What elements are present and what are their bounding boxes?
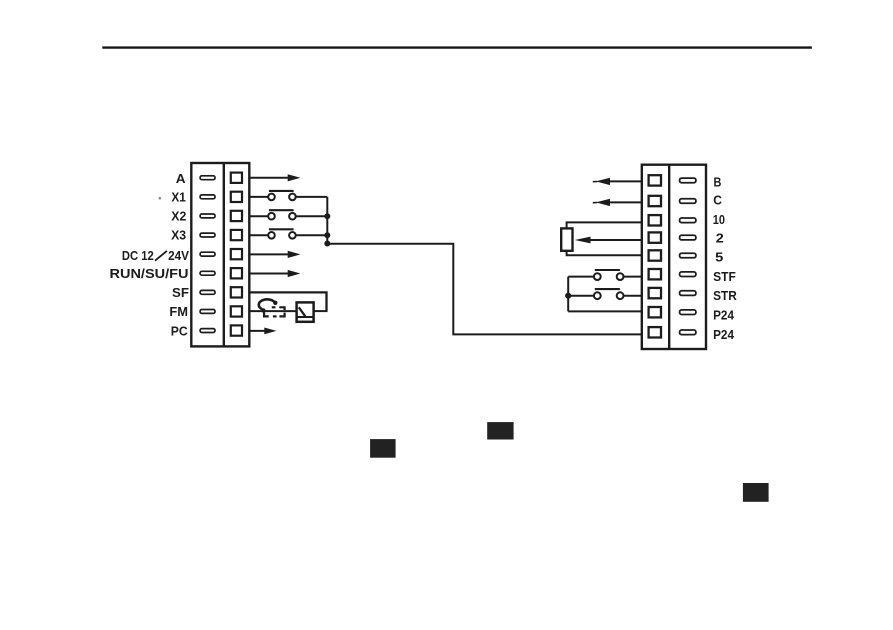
wire A output (249, 177, 289, 179)
bus X1-X3 vertical (326, 197, 328, 244)
terminal B (right) (649, 175, 696, 185)
right terminal block outline (642, 165, 706, 349)
svg-text:SF: SF (172, 285, 189, 300)
svg-text:A: A (176, 171, 186, 186)
wire X3 to switch (249, 234, 268, 236)
terminal P24b (right) (649, 327, 696, 337)
scan speck (159, 197, 162, 200)
arrowhead C (596, 199, 610, 206)
svg-text:PC: PC (171, 323, 188, 338)
wire X1 switch to bus (296, 196, 328, 198)
terminal FM (left) (200, 306, 242, 316)
bus STF/STR vertical (567, 277, 569, 312)
wire 10 to potentiometer top (567, 222, 642, 228)
wire bus to P24 (568, 310, 642, 312)
junction dot X2 (324, 213, 330, 219)
svg-text:X2: X2 (171, 209, 186, 224)
wire X3 switch to bus (296, 234, 328, 236)
meter M (frequency meter) (259, 299, 285, 316)
svg-text:X1: X1 (171, 190, 186, 205)
terminal X3 (left) (200, 230, 242, 240)
terminal STF (right) (649, 269, 696, 279)
switch STR (594, 289, 624, 299)
switch X1 (268, 191, 296, 200)
wire box to SF rail (314, 310, 328, 312)
wire DC12/24V output (249, 253, 289, 255)
terminal C (right) (649, 196, 696, 206)
wire X2 to switch (249, 215, 268, 217)
wire RUN/SU/FU output (249, 273, 289, 275)
svg-text:24V: 24V (168, 248, 189, 263)
arrowhead PC (264, 328, 276, 335)
arrowhead wiper (575, 237, 591, 244)
long wire X3-bus to P24 (327, 244, 642, 335)
calibration resistor box (297, 302, 314, 321)
svg-text:5: 5 (715, 250, 723, 265)
terminal RUN/SU/FU (left) (200, 268, 242, 278)
arrow C tip whisker (593, 202, 598, 204)
left terminal block outline (191, 163, 249, 346)
svg-text:P24: P24 (713, 327, 734, 342)
terminal 5 (right) (649, 250, 696, 260)
switch STF (594, 270, 624, 280)
redaction box 2 (487, 422, 513, 439)
wire STR switch to bus (568, 295, 594, 297)
terminal 2 (right) (649, 232, 696, 242)
svg-text:STR: STR (713, 288, 737, 303)
wire X2 switch to bus (296, 215, 328, 217)
wire C output (609, 201, 642, 203)
svg-text:10: 10 (713, 212, 725, 227)
svg-text:X3: X3 (171, 227, 186, 242)
switch X3 (268, 229, 296, 238)
wire STR switch to block (624, 295, 642, 297)
terminal X1 (left) (200, 192, 242, 202)
switch X2 (268, 210, 296, 219)
terminal STR (right) (649, 288, 696, 298)
arrowhead B (596, 178, 610, 185)
svg-text:RUN/SU/FU: RUN/SU/FU (110, 266, 189, 281)
svg-text:DC 12: DC 12 (122, 248, 154, 263)
terminal SF (left) (200, 287, 242, 297)
redaction box 3 (743, 483, 769, 502)
wire STF switch to block (624, 276, 642, 278)
potentiometer body (561, 228, 572, 250)
wire SF rail (249, 292, 326, 311)
svg-text:B: B (714, 174, 722, 189)
wire 2 wiper (590, 239, 642, 241)
junction dot X3 (324, 232, 330, 238)
svg-text:C: C (713, 193, 722, 208)
arrowhead DC12/24V (288, 251, 301, 258)
terminal 10 (right) (649, 215, 696, 225)
terminal PC (left) (200, 325, 242, 335)
svg-text:2: 2 (716, 230, 724, 245)
junction dot STR (565, 293, 571, 299)
wire FM (249, 310, 296, 312)
redaction box 1 (370, 439, 396, 458)
terminal X2 (left) (200, 211, 242, 221)
arrowhead RUN/SU/FU (288, 270, 301, 277)
wire X1 to switch (249, 196, 268, 198)
terminal P24a (right) (649, 307, 696, 317)
svg-text:FM: FM (169, 304, 188, 319)
wire STF switch to bus (568, 276, 594, 278)
wire B output (609, 180, 642, 182)
svg-text:P24: P24 (713, 308, 734, 323)
wire PC output (249, 330, 266, 332)
terminal DC12/24V (left) (200, 249, 242, 259)
arrowhead A (288, 174, 301, 181)
junction dot bend (324, 241, 330, 247)
label DC12/24V (122, 248, 189, 263)
arrow B tip whisker (593, 181, 598, 183)
wire 5 to potentiometer bottom (567, 251, 642, 256)
terminal A (left) (200, 173, 242, 183)
horizontal rule (102, 46, 812, 48)
svg-text:STF: STF (713, 269, 736, 284)
